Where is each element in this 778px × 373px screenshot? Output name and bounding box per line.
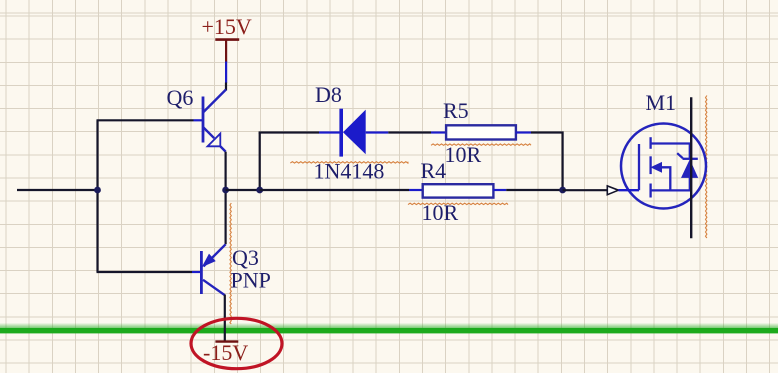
wire M1 drain-source vertical bbox=[690, 97, 692, 238]
node input junction bbox=[94, 187, 101, 194]
wire to M1 gate bbox=[563, 189, 608, 191]
ERC marker squiggle under D8 bbox=[290, 162, 408, 163]
svg-text:M1: M1 bbox=[646, 90, 677, 115]
pin R5 right (blue) bbox=[516, 131, 531, 133]
pin D8 anode (blue) bbox=[366, 131, 389, 133]
node emitter junction bbox=[222, 187, 229, 194]
svg-text:10R: 10R bbox=[422, 200, 459, 225]
resistor R5 bbox=[446, 125, 516, 139]
ERC marker squiggle under R5 bbox=[431, 144, 531, 145]
wire emitter junction to D8 branch bbox=[226, 189, 260, 191]
svg-text:R4: R4 bbox=[421, 158, 447, 183]
wire Q3 base bbox=[97, 271, 193, 273]
resistor R4 bbox=[423, 184, 494, 197]
svg-text:+15V: +15V bbox=[202, 14, 252, 39]
pin R5 left (blue) bbox=[431, 131, 446, 133]
pin Q3 base (blue) bbox=[192, 271, 201, 273]
svg-text:1N4148: 1N4148 bbox=[314, 159, 385, 184]
red annotation ellipse bbox=[191, 318, 282, 368]
wire output bus left bbox=[260, 189, 409, 191]
wire base column vertical bbox=[96, 120, 98, 272]
transistor M1 (MOSFET) bbox=[618, 124, 706, 209]
svg-text:R5: R5 bbox=[443, 98, 469, 123]
wire R4 to gate junction bbox=[506, 189, 562, 191]
M1 gate open arrow bbox=[607, 186, 618, 195]
wire D8 to R5 bbox=[388, 131, 431, 133]
node D8 branch junction bbox=[256, 187, 263, 194]
ERC marker squiggle under R4 bbox=[408, 203, 508, 204]
ERC marker squiggle along Q3 collector wire bbox=[230, 203, 231, 324]
transistor Q3 bbox=[201, 244, 225, 295]
node R5/R4 junction bbox=[559, 187, 566, 194]
wire D8 branch vertical bbox=[259, 133, 261, 191]
wire D8 row left bbox=[259, 131, 319, 133]
diode D8 bbox=[339, 109, 365, 157]
svg-text:PNP: PNP bbox=[231, 268, 271, 293]
svg-text:-15V: -15V bbox=[203, 340, 248, 365]
wire Q6 collector pin (blue) bbox=[225, 62, 227, 84]
svg-text:D8: D8 bbox=[315, 82, 342, 107]
transistor Q6 bbox=[203, 90, 226, 152]
pin D8 cathode (blue) bbox=[319, 131, 340, 133]
svg-text:Q6: Q6 bbox=[167, 85, 194, 110]
ERC marker squiggle along M1 drain wire bbox=[706, 96, 707, 239]
power +15V bar bbox=[215, 38, 239, 41]
svg-text:10R: 10R bbox=[445, 142, 482, 167]
pin Q6 base (blue) bbox=[194, 119, 203, 121]
wire R5 to corner bbox=[531, 133, 563, 191]
wire Q6 emitter to junction bbox=[225, 152, 227, 245]
power +15V stub bbox=[225, 41, 227, 63]
pin R4 left (blue) bbox=[409, 189, 423, 191]
svg-text:Q3: Q3 bbox=[232, 245, 259, 270]
wire Q6 collector (black) bbox=[225, 83, 227, 91]
pin R4 right (blue) bbox=[493, 189, 506, 191]
wire input stub bbox=[17, 189, 98, 191]
power -15V bar bbox=[215, 340, 238, 342]
wire Q6 base bbox=[97, 119, 194, 121]
wire Q3 collector to -15V bbox=[224, 295, 226, 341]
